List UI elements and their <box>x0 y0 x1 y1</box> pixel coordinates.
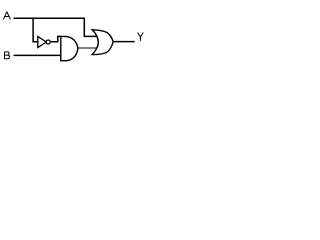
node A label <box>3 12 10 19</box>
inverter U1 bubble <box>46 40 50 44</box>
inverter U1 triangle <box>38 37 47 48</box>
AND gate U2 <box>61 36 78 60</box>
wire: input B horizontal line into AND gate lower input <box>14 54 61 56</box>
OR gate U3 <box>92 30 113 55</box>
background <box>0 0 152 68</box>
node B label <box>5 52 10 59</box>
wire: A drop into OR gate top input <box>84 18 97 36</box>
wire: input A horizontal top line <box>14 17 85 19</box>
wire: branch from A down to NOT gate input <box>33 18 38 41</box>
node Y label <box>138 33 144 41</box>
wire: OR output to Y <box>113 41 135 43</box>
wire: NOT output riser up to AND gate top input <box>51 36 61 41</box>
wire: AND output to OR gate lower input <box>78 47 99 49</box>
